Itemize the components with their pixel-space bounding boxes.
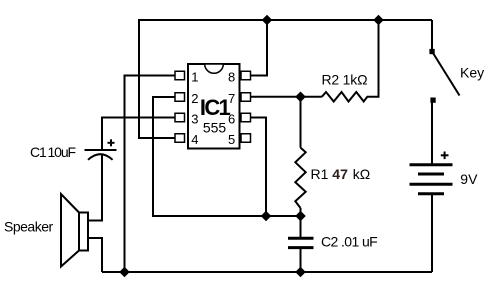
svg-text:8: 8 (228, 69, 235, 84)
svg-text:1: 1 (191, 69, 198, 84)
svg-text:6: 6 (228, 111, 235, 126)
svg-text:R2 1kΩ: R2 1kΩ (322, 72, 368, 88)
svg-text:9V: 9V (460, 171, 478, 187)
svg-text:R147kΩ: R147kΩ (311, 166, 371, 182)
svg-text:C2 .01 uF: C2 .01 uF (321, 233, 377, 249)
svg-text:C110uF: C110uF (30, 144, 76, 160)
svg-text:5: 5 (228, 132, 235, 147)
svg-text:IC1: IC1 (200, 95, 231, 120)
svg-text:3: 3 (191, 111, 198, 126)
svg-text:Speaker: Speaker (4, 219, 53, 235)
svg-text:4: 4 (191, 132, 198, 147)
svg-text:2: 2 (191, 91, 198, 106)
svg-text:555: 555 (203, 120, 227, 136)
svg-text:Key: Key (460, 64, 484, 80)
svg-text:7: 7 (228, 91, 235, 106)
